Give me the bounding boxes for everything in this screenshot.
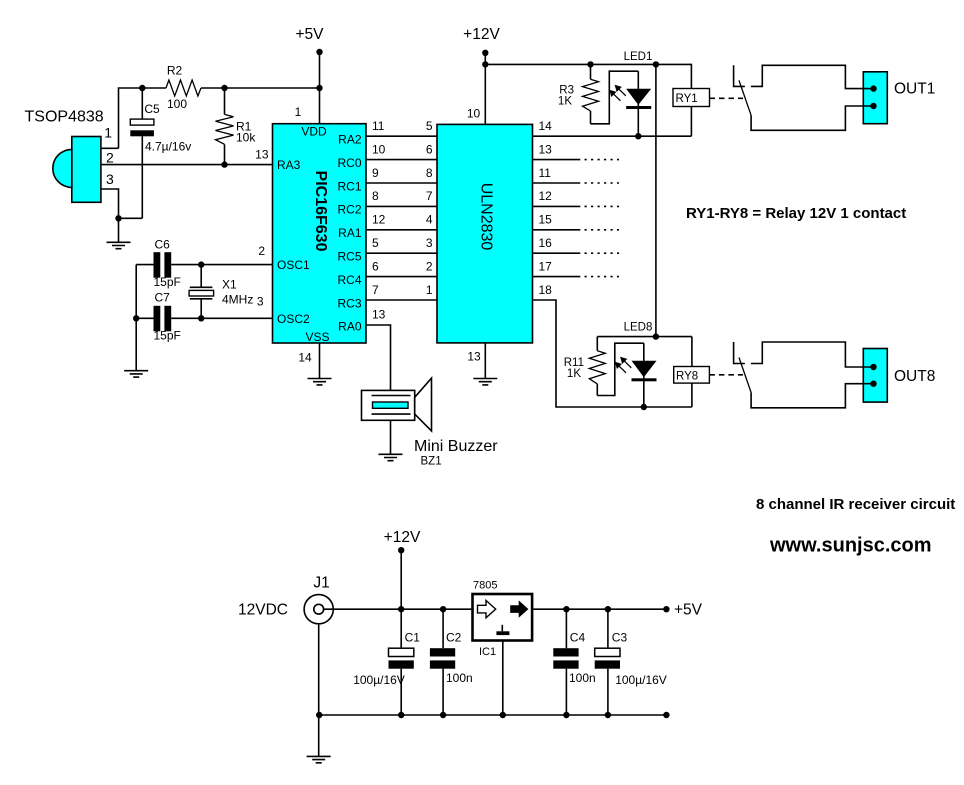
svg-text:+5V: +5V	[295, 26, 324, 43]
svg-text:11: 11	[539, 166, 552, 180]
wire RY8 dashed actuation	[709, 374, 743, 376]
node junction rail C1	[398, 712, 404, 718]
wire contact8 bottom to OUT8 pin2	[751, 384, 873, 408]
svg-text:C2: C2	[446, 630, 462, 644]
node junction rail J1	[316, 712, 322, 718]
wire +12V top rail	[485, 64, 691, 88]
regulator IC1 7805 box	[473, 594, 533, 641]
wire TSOP pin1 stub	[101, 147, 119, 149]
svg-text:100: 100	[167, 97, 187, 111]
wire RY1 dashed actuation	[710, 97, 744, 99]
wire bus row 4	[366, 205, 437, 207]
wire bus PIC-ULN pin row 1	[366, 135, 437, 137]
svg-text:8: 8	[426, 166, 433, 180]
svg-text:14: 14	[298, 351, 312, 365]
node junction R3 top	[587, 61, 593, 67]
svg-text:R2: R2	[167, 64, 183, 78]
svg-text:+5V: +5V	[674, 602, 703, 619]
node junction C2 top	[440, 606, 446, 612]
svg-text:100n: 100n	[446, 671, 473, 685]
wire bus row 6	[366, 252, 437, 254]
IR receiver TSOP4838 body	[72, 137, 101, 203]
svg-text:7805: 7805	[473, 580, 497, 592]
wire J1 to ground	[318, 624, 320, 757]
node junction R1 bottom	[221, 161, 227, 167]
node OUT8 pin1 dot	[870, 364, 876, 370]
svg-text:3: 3	[257, 295, 264, 309]
wire 12V long vertical to LED8 rail	[655, 64, 657, 336]
svg-text:C1: C1	[405, 630, 421, 644]
node OUT1 pin1 dot	[870, 85, 876, 91]
svg-text:RC1: RC1	[337, 179, 361, 193]
wire top rail segment R2 to +5V	[201, 87, 320, 89]
svg-text:OUT8: OUT8	[894, 368, 935, 385]
capacitor C5	[119, 88, 154, 218]
wire top-left rail segment left of R2	[119, 88, 167, 148]
svg-text:C6: C6	[155, 238, 171, 252]
node junction 12V drop	[653, 61, 659, 67]
svg-text:RA1: RA1	[338, 226, 362, 240]
wire main 5V line	[533, 608, 666, 610]
svg-text:OSC2: OSC2	[277, 312, 310, 326]
node junction LED1 cathode	[635, 133, 641, 139]
wire +5V vertical to PIC VDD	[319, 52, 321, 124]
node junction rail C4	[563, 712, 569, 718]
regulator output arrow	[510, 600, 528, 617]
node junction C7 left	[133, 315, 139, 321]
LED8 arrows	[615, 357, 632, 373]
svg-text:10: 10	[467, 106, 481, 120]
node junction R1 top	[221, 85, 227, 91]
ground crystal	[124, 371, 148, 377]
node junction C4 top	[563, 606, 569, 612]
ground J1	[307, 756, 331, 762]
wire OSC1 right segment	[171, 264, 272, 266]
wire 7805 ground	[502, 640, 504, 716]
connector J1	[304, 595, 333, 624]
node junction +5V rail	[316, 85, 322, 91]
node junction C5 top	[139, 85, 145, 91]
capacitor C1	[389, 609, 414, 715]
node +5V terminal dot	[316, 49, 322, 55]
wire R3 to LED1 anode	[591, 71, 639, 124]
capacitor C6	[154, 252, 172, 278]
relay coil RY8	[674, 337, 710, 407]
svg-text:+12V: +12V	[384, 529, 421, 546]
node junction rail 7805	[500, 712, 506, 718]
svg-text:100µ/16V: 100µ/16V	[353, 673, 405, 687]
LED1 arrows	[609, 85, 626, 101]
node junction rail end	[663, 712, 669, 718]
LED LED1	[626, 71, 651, 136]
wire ULN pin 11 stub	[533, 182, 620, 184]
svg-text:9: 9	[372, 166, 379, 180]
regulator input arrow	[478, 600, 496, 617]
svg-text:1K: 1K	[558, 96, 572, 108]
svg-text:C4: C4	[570, 630, 586, 644]
node OUT8 pin2 dot	[870, 381, 876, 387]
wire bus row 3	[366, 182, 437, 184]
buzzer BZ1	[362, 378, 432, 431]
svg-text:1: 1	[295, 105, 302, 119]
wire crystal left vertical	[135, 265, 137, 371]
wire OSC2 right segment	[171, 317, 272, 319]
svg-text:8 channel IR receiver circuit: 8 channel IR receiver circuit	[756, 496, 955, 513]
wire bus row 5	[366, 229, 437, 231]
svg-text:7: 7	[426, 189, 433, 203]
svg-text:4MHz: 4MHz	[222, 293, 253, 307]
svg-text:C5: C5	[144, 102, 160, 116]
svg-text:5: 5	[372, 236, 379, 250]
svg-text:RC2: RC2	[337, 203, 361, 217]
svg-text:RA0: RA0	[338, 320, 362, 334]
wire PIC VSS down	[319, 343, 321, 379]
svg-text:12: 12	[372, 213, 386, 227]
svg-text:OUT1: OUT1	[894, 81, 935, 98]
wire OSC2 left segment	[136, 317, 153, 319]
IC U2 ULN2830 body	[437, 124, 533, 343]
svg-text:4: 4	[426, 213, 433, 227]
svg-text:ULN2830: ULN2830	[478, 183, 495, 251]
svg-text:TSOP4838: TSOP4838	[25, 109, 104, 126]
resistor R11	[589, 337, 605, 396]
svg-text:12VDC: 12VDC	[238, 602, 288, 619]
ground ULN	[473, 379, 497, 385]
svg-text:8: 8	[372, 189, 379, 203]
svg-text:RA2: RA2	[338, 133, 362, 147]
wire ULN pin 17 stub	[533, 276, 620, 278]
node junction rail C3	[605, 712, 611, 718]
node +12V bottom terminal dot	[398, 547, 404, 553]
svg-text:Mini Buzzer: Mini Buzzer	[414, 438, 498, 455]
svg-text:13: 13	[467, 350, 481, 364]
regulator gnd mark	[496, 625, 509, 633]
ground buzzer	[379, 454, 403, 460]
svg-text:2: 2	[426, 259, 433, 273]
svg-text:+12V: +12V	[463, 26, 500, 43]
svg-text:4.7µ/16v: 4.7µ/16v	[145, 140, 191, 154]
svg-text:2: 2	[258, 244, 265, 258]
svg-text:5: 5	[426, 119, 433, 133]
wire +12V to ULN pin10	[484, 53, 486, 125]
wire ULN pin 13 stub	[533, 159, 620, 161]
svg-text:7: 7	[372, 283, 379, 297]
svg-text:15pF: 15pF	[154, 275, 181, 289]
svg-text:C3: C3	[612, 630, 628, 644]
svg-text:3: 3	[426, 236, 433, 250]
capacitor C4	[553, 609, 578, 715]
crystal X1	[189, 265, 214, 319]
node +5V out terminal dot	[663, 606, 669, 612]
svg-text:2: 2	[106, 150, 114, 166]
wire ULN pin 16 stub	[533, 252, 620, 254]
node junction C3 top	[605, 606, 611, 612]
svg-text:X1: X1	[222, 278, 237, 292]
relay contact 8 common	[734, 342, 745, 364]
svg-text:RC5: RC5	[337, 250, 361, 264]
svg-text:RY1: RY1	[676, 93, 698, 105]
svg-text:17: 17	[539, 259, 553, 273]
svg-text:6: 6	[426, 142, 433, 156]
svg-text:IC1: IC1	[479, 646, 496, 658]
wire buzzer to ground	[390, 420, 392, 454]
node junction rail C2	[440, 712, 446, 718]
svg-text:BZ1: BZ1	[421, 455, 442, 467]
svg-text:VDD: VDD	[301, 125, 327, 139]
svg-text:LED1: LED1	[624, 51, 653, 63]
svg-text:6: 6	[372, 259, 379, 273]
wire ULN pin13 ground	[484, 343, 486, 379]
wire ULN pin18 down to LED8 rail	[533, 300, 692, 407]
wire RY1 bottom to rail	[690, 107, 692, 137]
wire contact8 NO to OUT8 pin1	[751, 342, 874, 367]
wire main 12V line	[324, 608, 472, 610]
wire LED8 top rail	[597, 336, 692, 338]
svg-text:www.sunjsc.com: www.sunjsc.com	[769, 535, 932, 557]
svg-text:1: 1	[426, 283, 433, 297]
wire contact1 NO to OUT1 pin1	[751, 65, 874, 88]
svg-text:J1: J1	[313, 575, 329, 592]
svg-text:RC4: RC4	[337, 273, 361, 287]
wire contact1 bottom to OUT1 pin2	[751, 106, 873, 130]
wire bus row 8	[366, 299, 437, 301]
wire to TSOP ground	[118, 218, 120, 242]
node junction X1 bottom	[198, 315, 204, 321]
svg-text:1K: 1K	[567, 368, 581, 380]
svg-text:100µ/16V: 100µ/16V	[615, 673, 667, 687]
capacitor C7	[154, 306, 172, 332]
wire +12V bottom vertical	[400, 550, 402, 609]
svg-text:11: 11	[372, 119, 385, 133]
relay contact 8 lever	[739, 358, 751, 393]
svg-text:15: 15	[539, 213, 553, 227]
svg-text:RY1-RY8 = Relay 12V 1 contact: RY1-RY8 = Relay 12V 1 contact	[686, 205, 906, 222]
svg-text:RC3: RC3	[337, 296, 361, 310]
svg-text:13: 13	[372, 308, 386, 322]
resistor R3	[583, 64, 599, 123]
svg-text:PIC16F630: PIC16F630	[312, 171, 329, 252]
svg-text:15pF: 15pF	[154, 329, 181, 343]
node +12V terminal dot	[482, 50, 488, 56]
node OUT1 pin2 dot	[870, 103, 876, 109]
capacitor C3	[595, 609, 620, 715]
svg-text:10k: 10k	[236, 131, 256, 145]
svg-text:100n: 100n	[569, 671, 596, 685]
svg-text:1: 1	[104, 125, 112, 141]
svg-text:13: 13	[255, 148, 269, 162]
svg-text:12: 12	[539, 189, 553, 203]
node junction LED8 cathode	[641, 404, 647, 410]
svg-text:13: 13	[539, 142, 553, 156]
svg-text:10: 10	[372, 142, 386, 156]
node junction LED8 rail	[653, 333, 659, 339]
node junction C1 top	[398, 606, 404, 612]
wire ULN pin 15 stub	[533, 229, 620, 231]
wire bus row 7	[366, 276, 437, 278]
wire TSOP pin3 stub and down	[101, 189, 119, 218]
wire bus row 2	[366, 159, 437, 161]
relay contact 1 lever	[739, 80, 751, 115]
relay contact 1 common	[734, 65, 745, 86]
wire OSC1 left segment	[136, 264, 153, 266]
svg-text:C7: C7	[155, 291, 171, 305]
svg-text:RY8: RY8	[676, 370, 698, 382]
connector OUT8	[863, 349, 887, 403]
wire RA0 to buzzer	[366, 325, 391, 390]
node junction X1 top	[198, 261, 204, 267]
node junction +12V rail	[482, 61, 488, 67]
svg-text:18: 18	[539, 283, 553, 297]
connector OUT1	[863, 72, 887, 124]
wire ULN pin14 rail	[533, 135, 692, 137]
relay coil RY1	[673, 89, 710, 107]
capacitor C2	[430, 609, 455, 715]
LED LED8	[632, 343, 657, 407]
wire ULN pin 12 stub	[533, 205, 620, 207]
resistor R1	[216, 88, 234, 165]
svg-text:16: 16	[539, 236, 553, 250]
wire R11 to LED8 anode	[597, 343, 644, 395]
resistor R2	[166, 80, 201, 96]
svg-text:3: 3	[106, 171, 114, 187]
wire TSOP pin2 to PIC RA3	[101, 164, 273, 166]
ground PIC VSS	[308, 379, 332, 385]
node junction TSOP ground	[115, 215, 121, 221]
IC U1 PIC16F630 body	[273, 124, 367, 343]
svg-text:LED8: LED8	[624, 321, 653, 333]
IR receiver dome	[53, 149, 72, 187]
svg-text:RA3: RA3	[277, 158, 301, 172]
svg-text:14: 14	[539, 119, 553, 133]
wire bottom ground rail	[319, 714, 666, 716]
svg-text:OSC1: OSC1	[277, 258, 310, 272]
svg-text:VSS: VSS	[305, 330, 329, 344]
svg-text:RC0: RC0	[337, 156, 361, 170]
ground TSOP	[107, 242, 131, 248]
